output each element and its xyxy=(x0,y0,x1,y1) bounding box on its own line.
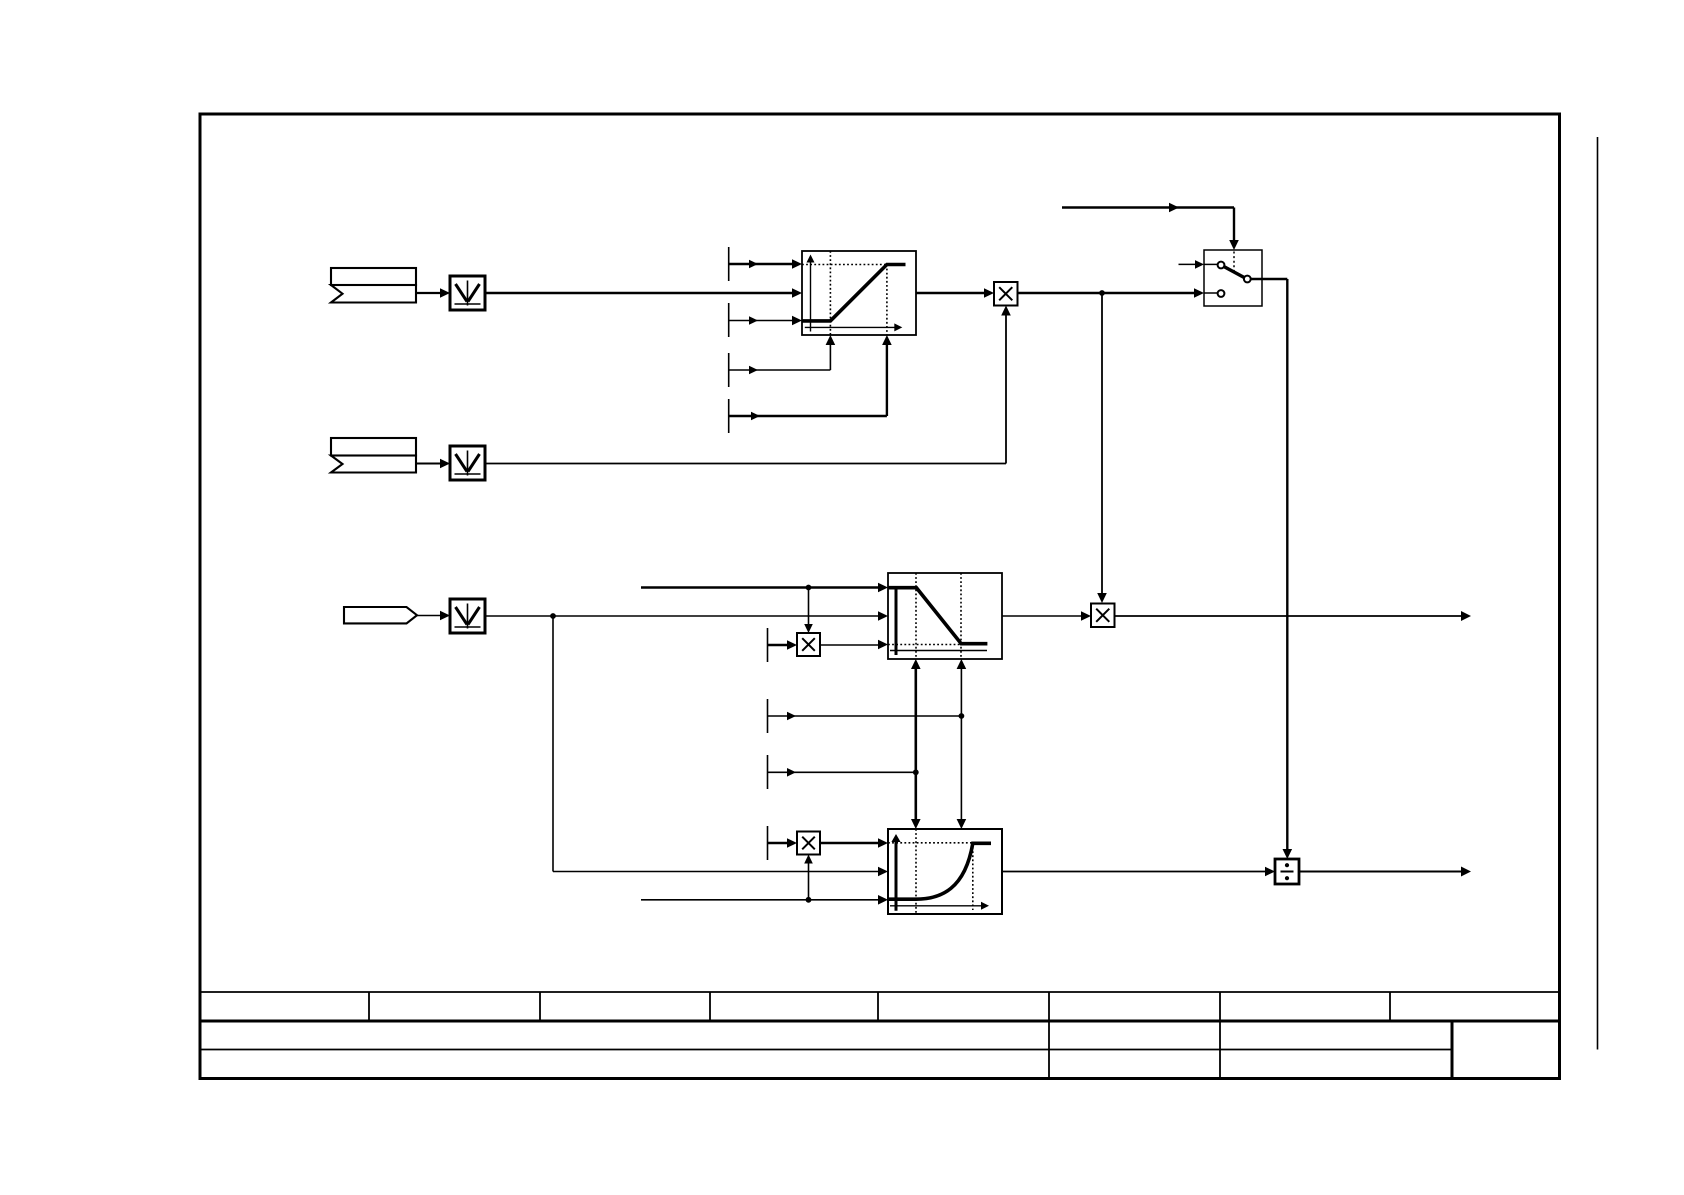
wire X2 output xyxy=(1115,611,1471,621)
inter-block vertical thick xyxy=(911,659,921,829)
input connector banner B1 xyxy=(331,268,416,303)
multiplier X3 xyxy=(797,633,820,656)
parameter boundary ticks T1 xyxy=(728,247,730,433)
wire r900 up to X4 xyxy=(804,855,813,900)
wire limiter1 to ramp block xyxy=(485,288,802,298)
wire X1 to switch with junction xyxy=(1018,288,1205,298)
title block thick divider xyxy=(1451,1021,1454,1078)
wire junction down to X2 top xyxy=(1097,293,1107,603)
wire ramp to multiplier X1 xyxy=(916,288,994,298)
exponential characteristic block F3 xyxy=(888,829,1002,914)
title block lower row line xyxy=(200,1049,1452,1051)
param input row B xyxy=(768,768,919,777)
limiter U1 xyxy=(450,276,485,310)
param input p-ramp-x1 xyxy=(729,335,836,374)
wire banner1 to limiter xyxy=(416,288,450,298)
title block thick middle line xyxy=(200,1020,1560,1023)
wire limiter3 to char block with junction xyxy=(485,611,888,621)
wire lower block to divider xyxy=(1002,867,1275,877)
param input row A xyxy=(768,712,965,721)
input connector banner B2 xyxy=(331,438,416,473)
wire bottom row r900 xyxy=(641,895,888,905)
param input p-upper-limit xyxy=(729,259,802,269)
outer right trim line xyxy=(1597,137,1599,1050)
ramp limiter block F1 xyxy=(802,251,916,335)
title block top-row dividers xyxy=(369,992,1390,1021)
wire char block to X2 xyxy=(1002,611,1091,621)
title block divider col 7 xyxy=(1219,992,1221,1078)
multiplier X2 xyxy=(1091,604,1115,628)
wire r587 down to X3 xyxy=(804,588,813,634)
divider D1 xyxy=(1275,859,1299,884)
wire left branch down to lower block xyxy=(553,616,888,876)
wire banner2 to limiter2 xyxy=(416,459,450,469)
wire limiter2 to X1 bottom xyxy=(485,306,1011,464)
param input to X4 xyxy=(768,838,798,848)
inter-block vertical thin xyxy=(957,659,967,829)
wire divider output xyxy=(1299,867,1471,877)
multiplier X4 xyxy=(797,832,820,855)
title block top line xyxy=(200,991,1560,993)
input connector P1 pentagon xyxy=(344,607,417,623)
limiter U2 xyxy=(450,446,485,480)
wire upper param row r587 xyxy=(641,583,888,593)
limiter U3 xyxy=(450,599,485,633)
wire X4 to lower block xyxy=(820,838,888,848)
changeover switch S1 xyxy=(1179,250,1263,306)
wire pentagon to limiter3 xyxy=(417,611,450,621)
title block divider col 6 xyxy=(1048,992,1050,1078)
wire X3 to char block xyxy=(820,640,888,650)
switch control wire xyxy=(1062,203,1239,250)
parameter boundary ticks T2 xyxy=(767,628,769,860)
multiplier X1 xyxy=(994,282,1018,306)
param input p-lower-limit xyxy=(729,316,802,326)
param input p-ramp-x2 xyxy=(729,335,892,420)
decreasing characteristic block F2 xyxy=(888,573,1002,659)
param input to X3 xyxy=(768,640,798,650)
wire switch output down to divider xyxy=(1251,279,1292,859)
drawing frame border xyxy=(200,114,1560,1079)
